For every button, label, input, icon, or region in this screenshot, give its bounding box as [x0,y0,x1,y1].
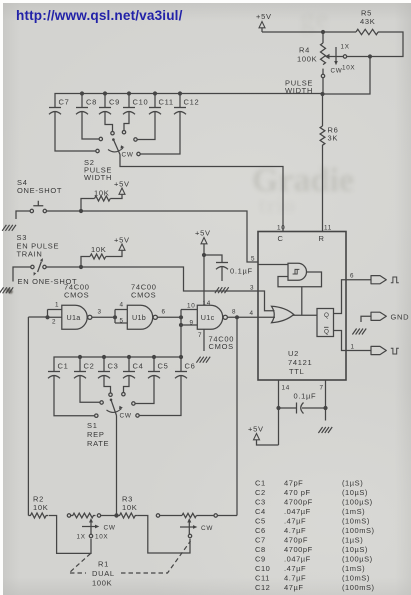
svg-text:C11: C11 [255,574,270,583]
svg-text:CMOS: CMOS [209,342,234,351]
svg-text:10X: 10X [342,65,355,72]
svg-text:10X: 10X [95,534,108,541]
svg-text:4.7µF: 4.7µF [284,574,306,583]
output connector GND [371,312,409,321]
CW arrow + 1X/10X (R1a) [77,525,116,541]
svg-text:ONE-SHOT: ONE-SHOT [17,186,62,195]
op-amp U2 74121 TTL box [258,232,346,381]
rotary switch S1 contacts [95,393,140,418]
svg-text:Q: Q [324,312,330,319]
svg-text:7: 7 [198,332,202,339]
svg-text:(100mS): (100mS) [342,583,375,592]
capacitor 0.1uF (U1c bypass) [204,255,253,281]
capacitor C1 [48,362,94,416]
svg-text:CW: CW [122,152,134,159]
capacitor C8 [76,91,99,139]
capacitor C12 [141,91,200,154]
svg-text:5: 5 [251,256,255,263]
svg-text:.047µF: .047µF [284,507,311,516]
ground (bypass cap) [215,287,229,293]
svg-text:.47µF: .47µF [284,517,306,526]
svg-text:U1c: U1c [201,313,215,322]
svg-text:R: R [319,234,325,243]
svg-text:(100µS): (100µS) [342,498,373,507]
nand gate U1a [45,302,92,330]
svg-text:100K: 100K [297,55,317,64]
URL header [16,8,183,23]
svg-text:S1: S1 [87,421,98,430]
nand gate U1b [113,302,157,330]
svg-text:+5V: +5V [248,425,264,434]
svg-text:+5V: +5V [256,12,272,21]
CW arrow (R1b) [180,525,213,532]
toggle switch S3 [31,258,47,276]
wire left net to U1a inputs [28,316,47,318]
+5V terminal (one-shot) [114,180,130,195]
svg-text:C4: C4 [133,362,144,371]
svg-text:U1b: U1b [132,313,146,322]
label S2 PULSE WIDTH [84,158,112,182]
svg-text:11: 11 [324,225,332,232]
svg-text:C6: C6 [255,526,266,535]
pin 14 wire below U2 [279,380,290,445]
wire R3 to right wiper loop [137,516,190,554]
svg-text:CW: CW [120,413,132,420]
svg-text:C5: C5 [255,517,266,526]
svg-text:CMOS: CMOS [131,291,156,300]
svg-text:Q: Q [324,329,330,336]
svg-text:3: 3 [250,285,254,292]
svg-text:C9: C9 [109,98,120,107]
R4 wiper arm [325,54,370,59]
wire wiper node down to pulse-width bus [323,57,370,95]
dashed gang line R1 dual [69,541,191,573]
svg-text:(10µS): (10µS) [342,488,368,497]
svg-text:C3: C3 [108,362,119,371]
svg-text:2: 2 [52,319,56,326]
svg-text:DUAL: DUAL [92,569,115,578]
resistor R3 10K [117,495,138,519]
OR gate (U2 internal) [272,306,294,322]
label 74C00 CMOS (U1c) [209,335,235,352]
wire U1c out down to R1 right section [236,317,238,515]
ground (GND connector) [352,316,371,334]
rotary switch S2 wiper [112,138,120,154]
wire pin3 to OR input [258,291,275,311]
S2 CW arc arrow [108,145,134,158]
svg-text:0.1µF: 0.1µF [294,392,317,401]
+5V terminal (en) [114,236,130,251]
svg-text:CMOS: CMOS [64,291,89,300]
svg-text:C8: C8 [86,98,97,107]
node junction wiper/R5 [368,54,372,58]
resistor R6 3K [320,94,338,231]
output connector pin 6 [371,276,386,284]
resistor R5 43K [356,9,378,35]
svg-text:WIDTH: WIDTH [84,173,112,182]
label S1 REP RATE [87,421,109,448]
svg-text:+5V: +5V [195,229,211,238]
flip-flop Q block (U2 internal) [317,309,334,337]
svg-text:74121: 74121 [288,358,312,367]
svg-text:3: 3 [98,309,102,316]
svg-text:(1mS): (1mS) [342,507,365,516]
R1b wiper arm [187,518,191,538]
schmitt AND gate (U2 internal) [288,263,307,280]
wire C1-C6 top bus [54,357,181,371]
capacitor 0.1uF (U2 bypass) [279,392,326,414]
capacitor C7 [49,98,96,152]
node junction R4 bottom / R6 / bus [320,78,324,96]
ghost bleed-through text [252,162,354,200]
svg-text:C7: C7 [59,98,70,107]
component value table [255,479,375,593]
svg-text:43K: 43K [360,17,375,26]
main schematic svg [6,288,14,294]
pin 11 label R [319,225,332,244]
wire OR output to flip-flop [293,314,318,316]
resistor 10K (en pull-up) [81,245,122,267]
output connector pin 1 [371,346,386,354]
node junction R4 top [321,30,325,34]
nand gate U1c [179,300,228,339]
ground (U2 pin 7) [318,408,332,433]
potentiometer R1a (left section) [67,513,116,518]
svg-text:CW: CW [104,525,116,532]
rotary switch S2 contacts [96,131,140,156]
svg-text:4.7µF: 4.7µF [284,526,306,535]
svg-text:C11: C11 [159,98,174,107]
svg-text:C10: C10 [255,564,270,573]
svg-text:TRAIN: TRAIN [17,250,43,259]
svg-text:C8: C8 [255,545,266,554]
svg-text:C6: C6 [185,362,196,371]
svg-text:R1: R1 [98,560,109,569]
svg-text:(1µS): (1µS) [342,536,363,545]
ground (S3) [0,267,31,293]
svg-text:U2: U2 [288,349,299,358]
svg-text:C2: C2 [255,488,266,497]
svg-text:(100mS): (100mS) [342,526,375,535]
svg-text:C1: C1 [58,362,69,371]
svg-text:C4: C4 [255,507,266,516]
capacitor C11 [138,91,174,139]
node junction S4/10K [79,209,83,213]
svg-text:C: C [278,234,284,243]
resistor 10K (one-shot pull-up) [81,189,122,212]
svg-text:C9: C9 [255,555,266,564]
pin 7 wire below U2 [320,380,326,408]
node junction +5V / bypass cap [202,253,206,257]
label S4 ONE-SHOT [17,178,62,195]
resistor R2 10K [28,495,48,519]
svg-text:47µF: 47µF [284,583,303,592]
svg-text:5: 5 [120,318,124,325]
svg-text:REP: REP [87,430,105,439]
svg-text:RATE: RATE [87,439,109,448]
svg-text:6: 6 [350,273,354,280]
wire S1 wiper down to R3 node [116,416,118,516]
capacitor C2 [74,355,100,402]
svg-text:14: 14 [282,385,290,392]
label PULSE WIDTH node [285,79,313,96]
wire +5V rail to R5 [262,31,356,33]
potentiometer R1b (right section) [156,513,237,517]
wire U1b out to U1c [157,309,181,318]
capacitor C3 [98,355,119,393]
wire pin4 to OR input [258,316,275,318]
svg-text:7: 7 [320,385,324,392]
capacitor C10 [123,91,148,130]
pulse symbol (inverted) [391,348,399,354]
svg-text:9: 9 [190,320,194,327]
svg-text:470 pF: 470 pF [284,488,311,497]
svg-text:470pF: 470pF [284,536,308,545]
svg-text:.047µF: .047µF [284,555,311,564]
S1 CW arc arrow [107,406,132,420]
svg-text:10K: 10K [122,503,137,512]
svg-text:C7: C7 [255,536,266,545]
R1a wiper arm [89,518,93,538]
svg-text:4: 4 [250,310,254,317]
svg-text:U1a: U1a [67,313,81,322]
svg-text:4700pF: 4700pF [284,545,313,554]
ground (U1c pin 7) [196,329,210,362]
rotary switch S1 wiper [110,399,117,416]
capacitor C4 [123,355,144,392]
+5V supply terminal (top right) [256,12,272,32]
wire pin5 into schmitt gate [258,264,288,266]
svg-text:3K: 3K [328,134,339,143]
pulse symbol (positive) [391,277,399,283]
potentiometer R4 100K [297,32,326,78]
svg-text:4: 4 [120,302,124,309]
svg-text:C2: C2 [84,362,95,371]
svg-text:C10: C10 [133,98,149,107]
pushbutton switch S4 [30,201,46,213]
svg-text:R4: R4 [299,46,310,55]
svg-text:CW: CW [331,68,343,75]
wire R5 right end down to wiper node [372,32,403,57]
+5V terminal (U1c pin 14) [195,229,211,306]
svg-text:4700pF: 4700pF [284,498,313,507]
label R1 DUAL 100K [92,560,115,588]
wire S3 to pin3/C-bus branch [46,267,258,291]
svg-text:(10µS): (10µS) [342,545,368,554]
svg-text:.47µF: .47µF [284,564,306,573]
node junction S1 wiper / R3 [114,513,118,517]
svg-text:10: 10 [187,303,195,310]
label S3 EN PULSE TRAIN [17,233,60,259]
node junction pin7 / ground [323,406,327,410]
CW range arrow 1X/10X (R4) [331,44,356,75]
wire U1c out to U2 pin 4 and node down [227,309,258,318]
capacitor C5 [135,355,168,404]
svg-text:0.1µF: 0.1µF [230,267,253,276]
svg-text:(1µS): (1µS) [342,479,363,488]
svg-text:100K: 100K [92,579,112,588]
label 74C00 CMOS (U1a) [64,283,90,300]
svg-text:1X: 1X [77,534,86,541]
svg-text:10K: 10K [33,503,48,512]
wire schmitt feedback loop [278,272,322,287]
node junction pin14 / 0.1uF [276,406,280,410]
svg-text:1: 1 [351,344,355,351]
svg-text:(100µS): (100µS) [342,555,373,564]
svg-text:10: 10 [277,225,285,232]
svg-text:C12: C12 [184,98,200,107]
capacitor C9 [99,91,120,131]
wire loop branch down to flip-flop input [301,287,303,315]
wire Qbar to pin 1 [334,331,372,351]
svg-text:10K: 10K [91,245,106,254]
wire Q to pin 6 [334,280,372,314]
wire R2 to wiper loop [49,516,91,554]
ground (S4) [2,211,30,231]
svg-text:1: 1 [55,302,59,309]
svg-text:6: 6 [162,309,166,316]
svg-text:(1mS): (1mS) [342,564,365,573]
svg-text:1X: 1X [341,44,350,51]
capacitor C6 [139,325,195,416]
wire U1a out to U1b [92,309,115,318]
node junction U1c output [235,315,239,319]
+5V terminal (U2 pin 14) [248,425,279,446]
svg-text:GND: GND [391,312,410,321]
node junction S3/10K [79,265,83,269]
svg-text:(10mS): (10mS) [342,574,370,583]
wire U1a input net (left vertical) [27,317,29,516]
svg-text:C1: C1 [255,479,266,488]
label 74C00 CMOS (U1b) [131,283,157,300]
svg-text:10K: 10K [94,189,109,198]
svg-text:C12: C12 [255,583,270,592]
svg-text:C3: C3 [255,498,266,507]
svg-text:47pF: 47pF [284,479,303,488]
svg-text:8: 8 [232,309,236,316]
svg-text:CW: CW [201,525,213,532]
wire S4 to U2 pin 5 [47,211,258,262]
wire S2 wiper to U2 pin 10 [120,155,283,232]
svg-text:(10mS): (10mS) [342,517,370,526]
svg-text:TTL: TTL [289,367,304,376]
wire C7-C12 top bus (pulse width node) [55,94,323,108]
svg-text:C5: C5 [158,362,169,371]
pin 10 label C [277,225,285,244]
